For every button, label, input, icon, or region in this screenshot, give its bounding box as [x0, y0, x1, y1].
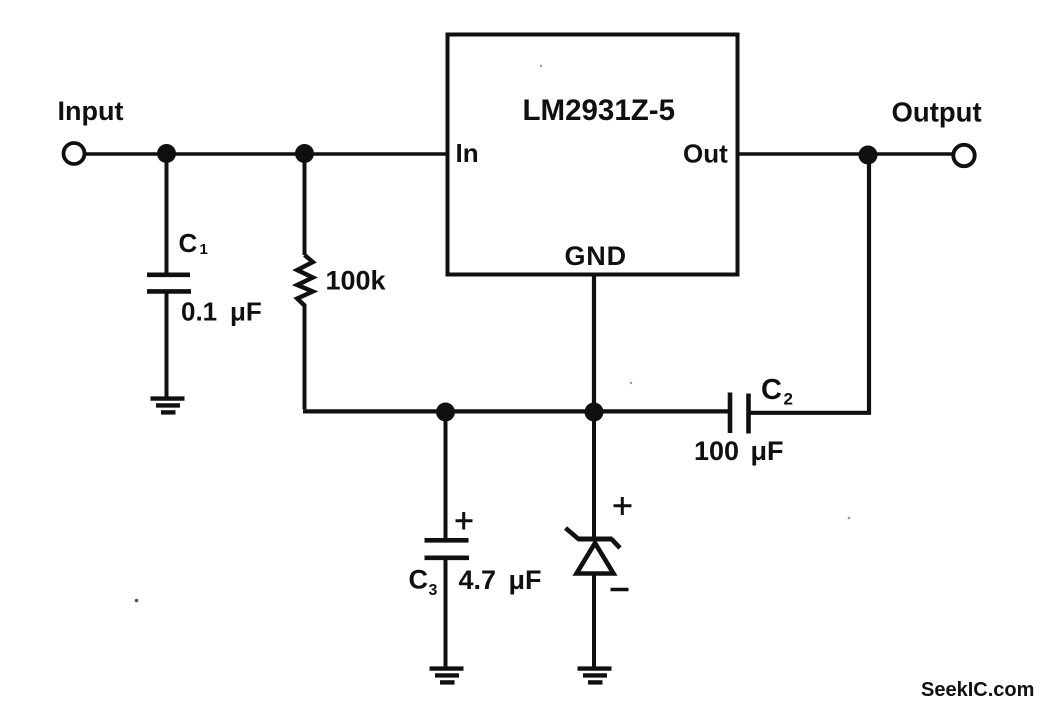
svg-text:C: C	[179, 228, 198, 258]
svg-text:SeekIC.com: SeekIC.com	[921, 679, 1034, 701]
svg-text:2: 2	[784, 390, 793, 409]
svg-text:GND: GND	[565, 241, 627, 271]
svg-text:100: 100	[694, 436, 739, 466]
svg-text:0.1: 0.1	[181, 297, 217, 327]
svg-text:3: 3	[429, 582, 438, 599]
svg-text:100k: 100k	[326, 266, 387, 296]
svg-text:LM2931Z-5: LM2931Z-5	[523, 94, 675, 127]
svg-text:μF: μF	[509, 565, 542, 595]
svg-text:C: C	[761, 374, 782, 406]
svg-text:Output: Output	[892, 97, 982, 128]
svg-text:C: C	[409, 565, 429, 595]
svg-text:μF: μF	[230, 297, 262, 327]
svg-text:4.7: 4.7	[459, 565, 497, 595]
svg-text:Out: Out	[683, 139, 728, 169]
svg-text:In: In	[456, 138, 479, 168]
svg-text:μF: μF	[751, 436, 784, 466]
svg-text:1: 1	[200, 241, 208, 258]
svg-text:Input: Input	[58, 96, 124, 126]
